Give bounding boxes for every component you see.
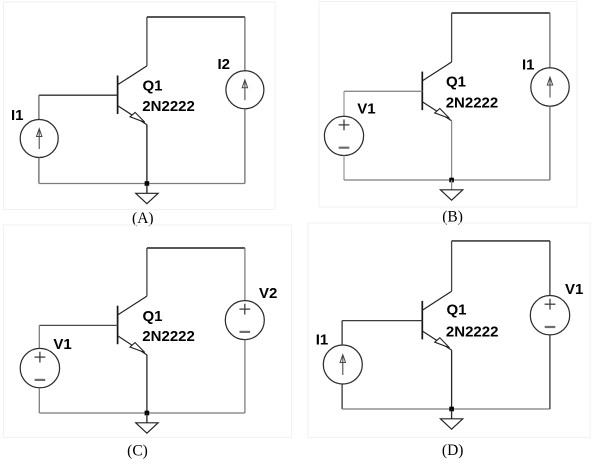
ground (B) [440,180,462,200]
wire C: collector vertical [146,248,148,296]
ground (A) [136,184,158,204]
node C: emitter/ground junction [145,411,150,416]
wire B: emitter vertical [451,121,453,180]
wire B: right source bottom lead [549,106,551,180]
frame border (C) [4,225,292,438]
svg-text:Q1: Q1 [143,78,163,95]
wire B: left source top lead [343,91,345,116]
svg-text:Q1: Q1 [447,302,467,319]
node B: emitter/ground junction [449,178,454,183]
wire D: base wire [342,320,422,322]
wire D: collector vertical [451,241,453,291]
wire A: top (collector net) [147,16,245,18]
wire B: top (collector net) [452,12,550,14]
svg-text:(C): (C) [127,442,148,459]
wire C: left source top lead [38,325,40,348]
svg-text:2N2222: 2N2222 [142,98,195,115]
wire A: right source bottom lead [244,109,246,184]
wire C: right source top lead [244,248,246,301]
wire B: bottom (ground net) [344,179,550,181]
wire B: base wire [344,90,422,92]
wire A: left source top lead [38,95,40,119]
svg-text:Q1: Q1 [143,308,163,325]
current source I1 (A) [20,120,58,158]
wire D: right source bottom lead [549,335,551,409]
wire A: right source top lead [244,17,246,71]
current source I1 (B) [531,68,569,106]
wire D: top (collector net) [452,240,550,242]
ground (D) [440,409,462,429]
svg-text:V1: V1 [53,336,71,353]
wire C: left source bottom lead [38,388,40,413]
wire C: right source bottom lead [244,340,246,413]
node A: emitter/ground junction [145,181,150,186]
transistor Q1 (C) 2N2222 NPN [118,296,147,355]
wire B: collector vertical [451,13,453,62]
wire A: bottom (ground net) [39,183,245,185]
svg-text:I1: I1 [11,107,24,124]
svg-text:I2: I2 [218,56,231,73]
svg-text:2N2222: 2N2222 [446,94,499,111]
wire B: right source top lead [549,13,551,68]
svg-text:I1: I1 [522,56,535,73]
wire C: emitter vertical [146,355,148,413]
wire C: base wire [39,324,117,326]
frame border (D) [308,223,590,438]
voltage source V2 (C) [225,301,264,340]
svg-text:I1: I1 [316,332,329,349]
wire A: left source bottom lead [38,158,40,184]
frame border (B) [319,2,577,208]
transistor Q1 (A) 2N2222 NPN [118,66,147,125]
svg-text:Q1: Q1 [446,74,466,91]
current source I2 (A) [226,71,264,109]
svg-text:V2: V2 [259,285,277,302]
transistor Q1 (B) 2N2222 NPN [422,62,451,121]
svg-text:(D): (D) [442,442,464,459]
node D: emitter/ground junction [449,407,454,412]
svg-text:V1: V1 [357,101,375,118]
wire C: top (collector net) [147,247,245,249]
wire A: base wire [39,94,118,96]
transistor Q1 (D) 2N2222 NPN [422,291,451,350]
wire D: left source top lead [341,321,343,345]
svg-text:2N2222: 2N2222 [446,324,499,341]
voltage source V1 (B) [324,116,363,155]
ground (C) [136,413,158,433]
wire D: bottom (ground net) [342,408,550,410]
current source I1 (D) [323,345,362,384]
frame border (A) [4,2,276,210]
svg-text:V1: V1 [565,281,583,298]
wire D: right source top lead [549,241,551,296]
wire A: emitter vertical [146,125,148,184]
wire A: collector vertical [146,17,148,66]
wire B: left source bottom lead [343,156,345,181]
voltage source V1 (C) [20,348,59,387]
voltage source V1 (D) [530,296,569,335]
wire D: emitter vertical [451,350,453,409]
wire C: bottom (ground net) [39,412,245,414]
svg-text:2N2222: 2N2222 [142,328,195,345]
wire D: left source bottom lead [341,384,343,409]
